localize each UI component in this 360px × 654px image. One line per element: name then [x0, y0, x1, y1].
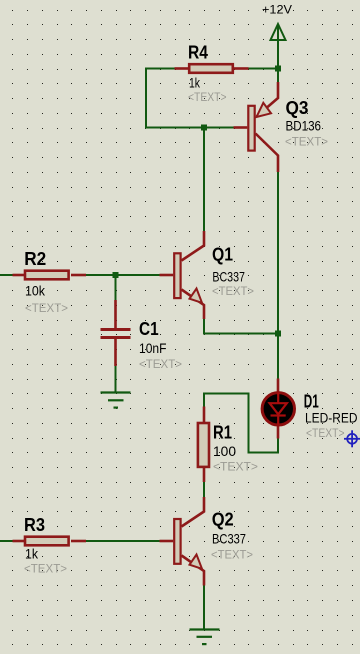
svg-text:C1: C1 [139, 319, 159, 339]
svg-text:<TEXT>: <TEXT> [24, 562, 67, 576]
transistor Q1 emitter arrow [190, 289, 203, 303]
LED D1 diode symbol [270, 393, 287, 425]
transistor Q1 body bar [174, 253, 180, 298]
wire Q3 collector down to LED anode [277, 172, 279, 379]
wire R4 left pin loop to Q3 base [146, 69, 234, 128]
transistor Q2 base pin [160, 540, 174, 543]
svg-text:<TEXT>: <TEXT> [25, 301, 68, 315]
svg-text:R1: R1 [213, 422, 232, 442]
resistor R2 pins [13, 274, 87, 277]
svg-text:BC337: BC337 [212, 270, 245, 285]
resistor R1 body [198, 423, 209, 467]
svg-text:10nF: 10nF [139, 341, 167, 356]
resistor R4 body [189, 64, 233, 73]
node R2 / C1 / Q1 base junction [113, 272, 119, 278]
resistor R1 pins [203, 407, 206, 483]
svg-text:<TEXT>: <TEXT> [212, 284, 254, 298]
origin marker (blue crosshair) [344, 430, 360, 447]
node R4/+12V junction [275, 66, 281, 72]
svg-text:BD136: BD136 [286, 119, 322, 134]
transistor Q2 emitter pin [182, 556, 205, 586]
svg-text:10k: 10k [25, 283, 45, 298]
transistor Q3 emitter pin [257, 82, 279, 117]
transistor Q3 emitter arrow [257, 103, 272, 117]
transistor Q1 emitter pin [182, 290, 205, 320]
resistor R2 body [25, 271, 69, 280]
node Q3 base / Q1 collector junction [201, 125, 207, 131]
transistor Q3 base pin [234, 126, 248, 129]
wire R2 right pin to Q1 base [86, 274, 160, 276]
transistor Q3 collector pin [256, 134, 279, 173]
svg-text:<TEXT>: <TEXT> [306, 426, 345, 440]
svg-text:100: 100 [213, 444, 236, 459]
svg-text:<TEXT>: <TEXT> [213, 460, 258, 474]
LED D1 pins [277, 379, 280, 439]
svg-text:R3: R3 [24, 515, 45, 535]
LED D1 body circle [262, 393, 294, 425]
svg-text:1k: 1k [189, 76, 200, 91]
capacitor C1 pins [114, 300, 117, 366]
svg-text:Q2: Q2 [212, 510, 234, 530]
transistor Q2 body bar [174, 519, 180, 564]
wire R1 top to LED cathode (Z path) [204, 394, 278, 453]
svg-text:1k: 1k [25, 547, 38, 562]
svg-text:<TEXT>: <TEXT> [211, 548, 253, 562]
svg-text:<TEXT>: <TEXT> [139, 357, 182, 371]
svg-text:R4: R4 [188, 43, 208, 63]
svg-text:+12V: +12V [262, 3, 293, 17]
transistor Q2 emitter arrow [190, 555, 203, 569]
resistor R4 pins [175, 67, 249, 70]
svg-text:<TEXT>: <TEXT> [188, 90, 227, 104]
wire Q1 emitter down and right to LED anode rail [204, 319, 278, 334]
transistor Q2 collector pin [182, 497, 205, 527]
wire R3 right pin to Q2 base [86, 540, 160, 542]
svg-text:Q3: Q3 [286, 98, 309, 118]
wire Q2 emitter to ground [203, 585, 205, 630]
transistor Q3 body bar [248, 106, 254, 151]
wire C1 bottom to ground [115, 365, 117, 392]
resistor R3 body [25, 537, 69, 546]
wire R4 right pin to +12V rail [249, 68, 279, 70]
capacitor C1 plates [101, 330, 131, 338]
wire +12V rail down to Q3 emitter [277, 26, 279, 83]
transistor Q1 base pin [160, 274, 174, 277]
wire Q1 collector up to node [203, 128, 205, 232]
svg-text:R2: R2 [24, 249, 46, 269]
transistor Q1 collector pin [182, 231, 205, 261]
svg-text:D1: D1 [304, 391, 319, 411]
wire left entry to R3 [0, 540, 13, 542]
svg-text:Q1: Q1 [212, 245, 233, 265]
svg-text:<TEXT>: <TEXT> [285, 134, 328, 148]
resistor R3 pins [13, 540, 87, 543]
ground below C1 [101, 393, 131, 408]
svg-text:BC337: BC337 [212, 531, 246, 546]
node Q1 emitter / LED anode junction [275, 331, 281, 337]
wire left entry to R2 [0, 274, 13, 276]
svg-text:LED-RED: LED-RED [305, 410, 358, 425]
wire R1 bottom to Q2 collector [203, 482, 205, 497]
ground below Q2 [190, 630, 220, 645]
wire node to C1 top [115, 275, 117, 301]
power +12V arrow symbol [271, 24, 286, 42]
